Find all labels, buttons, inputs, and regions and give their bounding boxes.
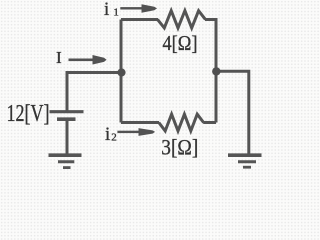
- node A junction dot: [117, 68, 125, 76]
- current arrow i2: [117, 128, 155, 136]
- wire battery negative lead down to left ground: [66, 121, 69, 155]
- svg-text:12[V]: 12[V]: [7, 101, 50, 127]
- wire bottom branch left segment to R2: [121, 121, 159, 124]
- svg-text:i: i: [105, 124, 110, 145]
- ground GND1 (left) bar 3: [63, 166, 71, 169]
- svg-text:1: 1: [113, 7, 119, 19]
- wire top branch left segment to R1: [121, 18, 158, 21]
- svg-text:3[Ω]: 3[Ω]: [161, 134, 198, 159]
- battery V1 positive plate: [50, 110, 84, 113]
- wire bottom branch right segment to right rail: [203, 121, 216, 124]
- ground GND1 (left) bar 1: [49, 153, 82, 157]
- resistor R2 zigzag: [159, 114, 204, 131]
- wire battery positive lead up and right to node A: [67, 73, 121, 111]
- svg-text:I: I: [56, 48, 62, 67]
- svg-text:2: 2: [111, 132, 117, 144]
- current arrow I: [69, 55, 107, 65]
- ground GND2 (right) bar 3: [243, 166, 251, 169]
- node B junction dot: [212, 67, 220, 75]
- ground GND2 (right) bar 2: [238, 160, 256, 163]
- svg-text:4[Ω]: 4[Ω]: [163, 31, 198, 55]
- ground GND2 (right) bar 1: [228, 153, 262, 157]
- wire node A column vertical (top branch to bottom branch): [120, 20, 123, 123]
- ground GND1 (left) bar 2: [58, 160, 74, 163]
- current arrow i1: [120, 4, 157, 13]
- wire node B tee right and down to right ground: [216, 71, 249, 155]
- wire top branch right segment and right rail down to bottom branch: [205, 20, 216, 123]
- svg-text:i: i: [104, 0, 109, 20]
- resistor R1 zigzag: [158, 11, 206, 28]
- battery V1 negative plate: [57, 117, 76, 121]
